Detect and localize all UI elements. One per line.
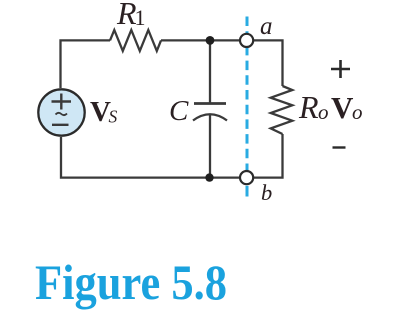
terminal a (open circle) [240, 34, 253, 47]
capacitor C bottom curved plate [193, 114, 227, 120]
wire terminal b to bottom-left to source [61, 137, 240, 178]
svg-text:a: a [260, 13, 273, 40]
source minus sign [52, 124, 69, 126]
wire capacitor top [209, 40, 211, 103]
svg-text:o: o [352, 100, 363, 124]
source plus sign [52, 94, 72, 110]
minus sign of Vo [333, 146, 346, 148]
voltage source VS circle [38, 89, 84, 135]
wire top-left from source to R1 [61, 40, 111, 88]
terminal b (open circle) [240, 171, 253, 184]
svg-text:S: S [109, 107, 118, 127]
wire capacitor bottom [209, 115, 211, 178]
cut line a-b (dashed) [246, 17, 249, 179]
capacitor C top plate [194, 102, 226, 105]
svg-text:V: V [331, 90, 354, 125]
svg-text:o: o [318, 100, 329, 124]
source tilde [56, 113, 68, 115]
svg-text:R: R [298, 89, 319, 125]
wire R1 to terminal a [161, 39, 240, 41]
resistor Ro [271, 86, 293, 134]
junction dot top [206, 36, 215, 45]
plus sign of Vo [331, 60, 350, 78]
resistor R1 [110, 30, 161, 51]
junction dot bottom [205, 173, 213, 181]
wire terminal a to top-right corner [254, 40, 283, 86]
svg-text:1: 1 [135, 5, 146, 30]
svg-text:Figure 5.8: Figure 5.8 [35, 254, 227, 310]
svg-text:C: C [169, 95, 189, 127]
svg-text:b: b [261, 180, 272, 205]
wire Ro to bottom-right corner to terminal b [254, 134, 283, 178]
